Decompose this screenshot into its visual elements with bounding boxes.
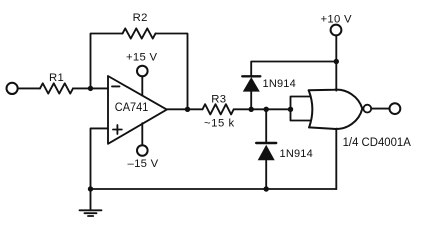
svg-text:1N914: 1N914: [263, 78, 296, 90]
svg-text:+15 V: +15 V: [126, 51, 158, 63]
wire gate bottom to ground bus: [335, 129, 337, 189]
wire non-inverting input to ground bus: [91, 128, 109, 189]
diode D2 anode lead: [265, 160, 267, 189]
wire R3 to gate input bus: [234, 108, 291, 110]
wire gate input bracket: [291, 97, 311, 121]
diode D1 anode lead: [250, 92, 252, 110]
svg-text:R2: R2: [133, 12, 148, 24]
resistor R3: [203, 104, 234, 114]
wire op-amp output: [167, 108, 203, 110]
diode D2 cathode bar: [256, 142, 276, 144]
op-amp U1: [108, 76, 167, 144]
-15 V terminal: [137, 145, 148, 156]
node gate input: [288, 107, 293, 112]
wire feedback left riser: [91, 34, 123, 89]
diode D2 cathode lead: [265, 109, 267, 143]
wire D1 cathode to +10V rail: [251, 62, 336, 77]
wire +15V to op-amp top: [141, 76, 143, 95]
output terminal: [390, 103, 401, 114]
+10 V terminal: [331, 25, 342, 36]
input terminal: [7, 83, 18, 94]
resistor R1: [40, 83, 73, 93]
NOR gate output inversion bubble: [363, 105, 371, 113]
wire input to R1: [18, 87, 40, 89]
NOR gate U2 1/4 CD4001A: [309, 90, 363, 129]
diode D1 1N914 (clamp to +10V): [243, 77, 260, 92]
svg-text:~15 k: ~15 k: [204, 117, 235, 129]
+15 V terminal: [137, 66, 148, 77]
node ground bus left junction: [88, 186, 93, 191]
wire bubble to output terminal: [371, 108, 389, 110]
diode D1 cathode bar: [242, 75, 260, 77]
wire +10V down to gate top: [335, 35, 337, 90]
svg-text:CA741: CA741: [115, 102, 149, 114]
resistor R2: [123, 28, 156, 38]
wire R1 to op-amp inverting input: [73, 87, 108, 89]
svg-text:R1: R1: [49, 72, 64, 84]
node lower diode tap: [264, 107, 269, 112]
svg-text:1/4 CD4001A: 1/4 CD4001A: [343, 137, 412, 149]
svg-text:+10 V: +10 V: [321, 13, 353, 25]
wire op-amp bottom to -15V: [141, 123, 143, 145]
node output of op-amp: [185, 107, 190, 112]
diode D2 1N914 (clamp to ground): [258, 145, 275, 161]
ground: [80, 189, 102, 216]
node upper diode tap: [249, 107, 254, 112]
op-amp plus input sign: [113, 125, 122, 134]
wire ground bus: [91, 188, 337, 190]
svg-text:–15 V: –15 V: [128, 158, 159, 170]
wire feedback right drop to output node: [156, 34, 188, 110]
node A (summing junction): [88, 86, 93, 91]
node +10V rail junction: [334, 59, 339, 64]
svg-text:1N914: 1N914: [280, 148, 313, 160]
node D2 ground junction: [264, 186, 269, 191]
op-amp minus input sign: [112, 85, 120, 87]
svg-text:R3: R3: [211, 93, 226, 105]
